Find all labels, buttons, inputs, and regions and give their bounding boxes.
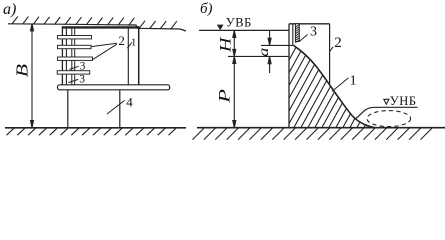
svg-text:3: 3 (79, 73, 85, 85)
svg-text:Н: Н (217, 36, 234, 53)
foundation slab (58, 85, 170, 90)
water level mark УНБ (384, 99, 389, 104)
svg-text:4: 4 (126, 95, 133, 110)
shandor beam 2 (58, 45, 92, 48)
svg-text:2: 2 (118, 33, 125, 48)
ground hatching (fig b bottom) (193, 128, 433, 140)
svg-text:1: 1 (131, 36, 137, 48)
svg-text:2: 2 (334, 35, 342, 51)
well left wall (61, 26, 63, 85)
dimension line B (31, 24, 34, 128)
well cap (fig a box top) (62, 26, 139, 28)
label 4 with leader (107, 100, 125, 114)
svg-text:а): а) (3, 1, 16, 18)
shandor guide post (double line) (71, 29, 73, 85)
label 1 (fig b) with leader (332, 78, 349, 92)
label 2 (fig b) with leader (329, 47, 333, 52)
svg-text:б): б) (200, 1, 213, 17)
hydraulic jump roller (dashed) (367, 111, 411, 127)
water level mark УВБ (217, 25, 224, 31)
ground line (fig a bottom) (5, 127, 186, 129)
downstream water level УНБ (354, 107, 417, 119)
gate (3) (295, 24, 299, 42)
gate lip level line (261, 44, 293, 46)
svg-text:Р: Р (216, 89, 233, 104)
dam upstream face (288, 24, 290, 128)
gate structure (2) top (289, 23, 330, 25)
well inner right wall (127, 27, 129, 85)
svg-text:1: 1 (350, 74, 357, 89)
label 3 lower (fig a) (68, 79, 78, 82)
svg-text:а: а (256, 48, 272, 57)
dimension line H and P (233, 30, 236, 127)
lower wall right (119, 90, 121, 128)
label 2 (fig a) with leaders to beams (91, 43, 117, 46)
label 3 upper (fig a) (69, 66, 78, 69)
shandor beam 4 (57, 71, 89, 74)
svg-text:УНБ: УНБ (390, 94, 417, 108)
lower wall left (67, 90, 69, 128)
dimension a (268, 30, 271, 73)
ground surface line (fig a top) (8, 24, 186, 31)
svg-text:В: В (14, 64, 32, 77)
svg-text:3: 3 (310, 25, 317, 40)
label 3 (fig b) with leader (299, 35, 307, 42)
label 1 (fig a) with leader (127, 42, 132, 48)
ground line (fig b bottom) (197, 127, 445, 129)
svg-text:УВБ: УВБ (226, 16, 252, 30)
ground hatching (fig a bottom) (7, 128, 177, 135)
gate structure (2) right wall (329, 24, 331, 84)
well right wall (138, 26, 140, 85)
ground hatching (fig a top) (12, 16, 177, 28)
svg-text:3: 3 (80, 60, 86, 72)
shandor beam 1 (58, 36, 92, 39)
upstream face inner line (292, 24, 294, 46)
upstream water level line УВБ (199, 29, 289, 31)
crest level extension line (228, 55, 289, 57)
shandor beam 3 (58, 57, 93, 60)
well inner wall line (65, 29, 67, 85)
spillway ogee profile (1) (294, 45, 375, 127)
